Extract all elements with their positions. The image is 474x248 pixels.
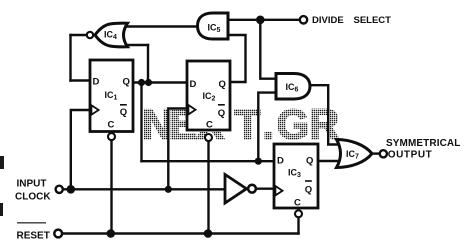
terminal INPUT CLOCK — [15, 179, 63, 203]
svg-text:T: T — [235, 101, 261, 148]
flip-flop IC2 — [187, 61, 230, 141]
svg-text:INPUT: INPUT — [17, 179, 47, 190]
wire input clock line — [64, 188, 224, 190]
svg-text:R: R — [309, 101, 339, 148]
svg-text:C: C — [294, 198, 301, 209]
inverter — [225, 175, 256, 204]
terminal DIVIDE SELECT — [300, 15, 391, 26]
wire IC6 lower input from D3 node — [258, 93, 276, 162]
svg-text:SYMMETRICAL: SYMMETRICAL — [386, 138, 460, 149]
svg-text:CLOCK: CLOCK — [15, 192, 51, 203]
svg-text:Q: Q — [123, 77, 130, 88]
scan artifact left edge a — [0, 156, 4, 169]
wire vertical from Q1 node down — [140, 83, 142, 162]
svg-text:Q: Q — [120, 107, 127, 118]
wire IC4 upper input from IC5 output — [123, 25, 198, 27]
wire IC7 output — [372, 152, 380, 154]
wire clock up to IC1 C — [71, 110, 90, 189]
svg-text:D: D — [190, 79, 197, 90]
wire divide select node down to IC6 upper input — [260, 20, 276, 79]
junction node at Q1-a — [138, 79, 145, 86]
wire reset line — [63, 232, 299, 234]
gate IC6 AND — [276, 74, 310, 100]
junction node clock-b — [165, 186, 172, 193]
junction node divide select — [256, 15, 265, 24]
gate IC4 NOR left-facing — [87, 23, 128, 47]
wire to IC3 D input — [142, 160, 275, 162]
svg-text:D: D — [277, 156, 284, 167]
wire IC1 Q to IC2 D — [133, 81, 187, 83]
junction node at Q1-b — [145, 79, 152, 86]
gate IC5 AND left-facing — [198, 13, 229, 39]
flip-flop IC1 — [90, 60, 133, 140]
wire into D input of IC1 — [71, 79, 91, 81]
scan artifact left edge b — [0, 203, 3, 216]
junction node clock-a — [67, 185, 76, 194]
svg-text:.: . — [263, 101, 275, 148]
junction node on D3 wire — [255, 158, 262, 165]
wire IC4 lower input — [124, 44, 148, 46]
wire IC3 clear down to reset — [297, 216, 299, 233]
wire IC1 clear down to reset — [110, 139, 112, 234]
wire IC5 lower pin staple — [228, 35, 246, 82]
gate IC7 OR — [337, 140, 373, 168]
wire IC2 clear down to reset — [207, 140, 209, 234]
svg-text:Q: Q — [306, 156, 313, 167]
flip-flop IC3 — [274, 144, 318, 217]
wire clock up to IC2 C — [168, 109, 187, 190]
wire vertical Q1 node up to IC4 input — [147, 45, 149, 83]
wire IC4 output to left bend — [71, 34, 87, 36]
junction node reset-a — [107, 229, 116, 238]
terminal RESET — [17, 223, 63, 242]
wire inverter output to IC3 C — [257, 187, 275, 189]
svg-text:OUTPUT: OUTPUT — [388, 150, 433, 161]
svg-text:DIVIDE: DIVIDE — [312, 15, 344, 26]
svg-text:Q: Q — [305, 185, 312, 196]
svg-text:Q: Q — [219, 79, 226, 90]
svg-text:C: C — [108, 120, 115, 131]
svg-text:D: D — [93, 77, 100, 88]
wire IC5 to divide select — [228, 19, 300, 21]
wire IC6 output to IC7 upper input — [310, 85, 339, 144]
svg-text:C: C — [206, 120, 213, 131]
watermark NEXT.GR — [142, 101, 339, 148]
svg-text:Q: Q — [218, 108, 225, 119]
terminal SYMMETRICAL OUTPUT — [380, 138, 461, 161]
wire IC3 Q to IC7 lower input — [318, 161, 340, 162]
svg-text:G: G — [277, 101, 310, 148]
svg-text:SELECT: SELECT — [354, 15, 392, 26]
junction node reset-b — [204, 229, 213, 238]
wire vertical to D1 — [69, 35, 71, 81]
svg-text:RESET: RESET — [17, 231, 50, 242]
